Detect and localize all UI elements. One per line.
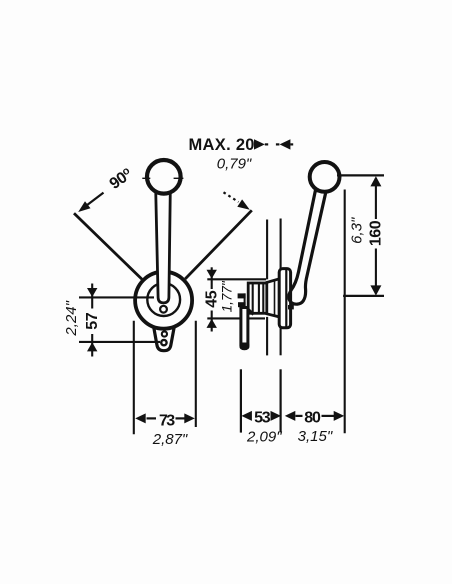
- dimension 160 line lower segment: [375, 249, 377, 294]
- dimension 73 left arrow: [135, 413, 146, 423]
- svg-text:160: 160: [368, 220, 385, 246]
- svg-text:57: 57: [84, 312, 101, 329]
- mounting flange plate (side view): [279, 269, 290, 328]
- housing rib 1: [252, 284, 254, 314]
- dimension 45 bottom extension line: [207, 317, 265, 319]
- lever shaft (front view): [156, 190, 171, 303]
- 90-degree leader line: [85, 193, 104, 207]
- cone rib: [274, 280, 276, 315]
- bracket step line: [248, 309, 254, 314]
- svg-text:73: 73: [159, 412, 175, 429]
- svg-text:MAX. 20: MAX. 20: [189, 136, 255, 154]
- dimension 45 top arrow: [207, 270, 217, 279]
- dimension 160 bottom arrow: [370, 285, 381, 295]
- housing cone section: [267, 279, 280, 317]
- dimension 160 top extension line: [337, 174, 384, 176]
- dimension 45 line upper segment: [211, 267, 213, 289]
- dimension 57 line lower segment: [91, 334, 93, 357]
- max-20 arrow dash 2: [276, 143, 280, 145]
- tab upper hole: [162, 331, 167, 336]
- dimension 73 line left segment: [147, 417, 157, 419]
- svg-text:0,79": 0,79": [217, 156, 252, 173]
- dimension 73 line right segment: [176, 417, 185, 419]
- dimension 45 bottom arrow: [207, 319, 217, 328]
- dimension 45 top extension line: [207, 278, 266, 280]
- dimension 57 bottom extension line: [79, 341, 160, 343]
- panel plane line B (max 20) upper segment: [280, 219, 282, 270]
- cable clevis upper bar: [238, 293, 246, 298]
- panel plane line A (max 20) upper segment: [266, 220, 268, 280]
- svg-text:6,3": 6,3": [349, 217, 366, 244]
- dimension 80 right extension line: [344, 190, 346, 434]
- dimension 57 top extension line: [79, 296, 154, 298]
- dimension 80 right arrow: [334, 411, 345, 421]
- knob ball (front view): [147, 160, 181, 194]
- max-20 left-pointing arrow: [280, 139, 291, 149]
- dimension 53-80 middle extension line: [280, 369, 282, 432]
- side view lever with hub: [289, 191, 326, 305]
- svg-text:80: 80: [304, 410, 321, 427]
- dimension 80 left arrow: [285, 411, 296, 421]
- shaft ledge below hub: [288, 305, 294, 309]
- panel plane line B middle segment: [280, 328, 282, 356]
- dimension 57 top arrow: [87, 288, 97, 297]
- front view: right 45-degree travel line: [185, 210, 252, 279]
- svg-text:1,77": 1,77": [220, 280, 235, 312]
- housing rib 2: [258, 284, 260, 314]
- dotted leader line toward tilted lever position: [224, 192, 239, 202]
- panel plane line A lower segment: [266, 317, 268, 356]
- svg-text:2,24": 2,24": [63, 300, 80, 336]
- dimension 57 bottom arrow: [87, 342, 97, 351]
- ball left tick: [142, 177, 150, 179]
- bracket foot: [240, 343, 250, 349]
- svg-text:45: 45: [204, 290, 221, 307]
- max-20 arrow dash 3: [290, 143, 293, 145]
- mounting tab with holes (front view): [154, 327, 175, 351]
- dimension 53 left arrow: [241, 411, 252, 421]
- dimension 80 line right segment: [322, 415, 335, 417]
- dimension 73 right arrow: [184, 413, 195, 423]
- dimension 45 line lower segment: [211, 311, 213, 332]
- cable clevis right joint: [244, 293, 246, 307]
- ball right tick: [174, 177, 184, 179]
- dimension 160 bottom extension line: [343, 295, 384, 297]
- base circle (front view): [135, 272, 192, 329]
- dotted leader arrowhead: [237, 199, 250, 209]
- housing main body (side view): [248, 283, 267, 313]
- dimension 73 left extension line: [133, 321, 135, 435]
- hub left edge over flange: [289, 291, 292, 303]
- cable clevis lower bar: [238, 302, 246, 307]
- tab lower hole: [161, 340, 166, 345]
- svg-text:3,15": 3,15": [298, 428, 333, 445]
- dimension 80 line left segment: [296, 415, 303, 417]
- side view knob ball: [310, 162, 340, 192]
- dimension 53 right arrow: [271, 411, 282, 421]
- front view: left 45-degree travel line: [74, 213, 142, 279]
- flange inner edge line: [285, 270, 287, 327]
- small hole below shaft tip: [160, 306, 167, 313]
- dimension 73 right extension line: [195, 321, 197, 427]
- max-20 arrow dash 1: [265, 143, 268, 145]
- mounting bracket: [241, 308, 248, 349]
- housing rib 3: [262, 284, 264, 314]
- svg-text:2,87": 2,87": [152, 431, 188, 448]
- dimension 57 line upper segment: [91, 284, 93, 309]
- 90-degree leader arrowhead: [78, 201, 90, 212]
- svg-text:53: 53: [254, 410, 271, 427]
- max-20 right-pointing arrow: [254, 139, 265, 149]
- inner circle (front view): [147, 283, 180, 316]
- svg-text:2,09": 2,09": [246, 429, 282, 446]
- dimension 53 left extension line: [240, 369, 242, 432]
- dimension 160 line upper segment: [375, 178, 377, 219]
- dimension 160 top arrow: [370, 176, 381, 186]
